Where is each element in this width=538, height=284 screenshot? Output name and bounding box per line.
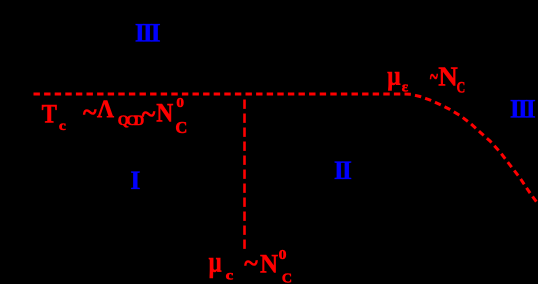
svg-text:0: 0: [176, 95, 184, 110]
svg-text:N: N: [438, 61, 458, 91]
svg-text:III: III: [135, 18, 161, 47]
svg-text:N: N: [156, 98, 173, 127]
svg-text:II: II: [334, 156, 352, 185]
svg-text:~: ~: [83, 97, 97, 126]
svg-text:μ: μ: [209, 245, 222, 278]
svg-text:~: ~: [244, 248, 258, 277]
svg-text:C: C: [175, 118, 187, 137]
svg-text:QCD: QCD: [118, 113, 144, 129]
svg-text:Λ: Λ: [97, 94, 114, 123]
svg-text:I: I: [130, 166, 140, 195]
baryon onset vertical line: [243, 100, 246, 252]
svg-text:c: c: [226, 268, 234, 283]
svg-text:ε: ε: [402, 80, 409, 96]
svg-text:N: N: [260, 248, 278, 278]
svg-text:0: 0: [279, 248, 287, 263]
svg-text:T: T: [42, 99, 58, 129]
svg-text:~: ~: [430, 62, 438, 91]
svg-text:~: ~: [142, 100, 156, 129]
svg-text:c: c: [59, 119, 66, 134]
deconfinement transition line (horizontal then bending down): [34, 94, 538, 204]
svg-text:III: III: [510, 95, 536, 124]
svg-text:C: C: [457, 79, 466, 96]
svg-text:C: C: [282, 271, 292, 284]
svg-text:μ: μ: [387, 60, 400, 90]
